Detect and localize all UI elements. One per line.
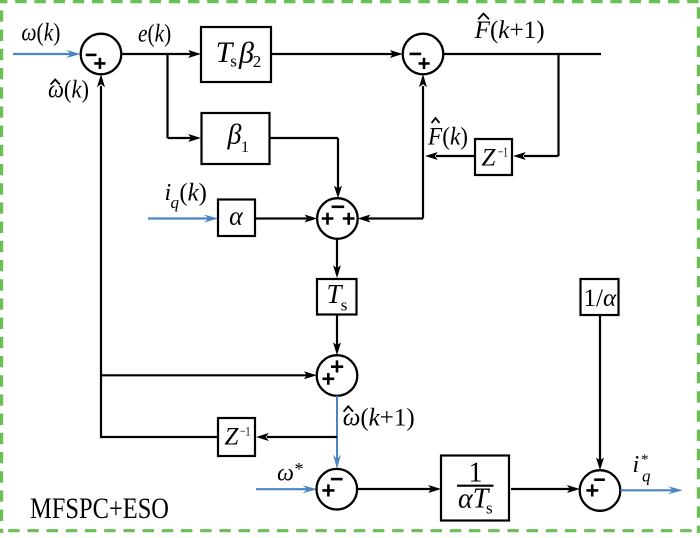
label omega-hat(k) [48,76,89,103]
svg-text:1: 1 [241,139,249,156]
svg-text:Z: Z [482,145,497,172]
wire: J1 to Ts*b2 block [121,50,201,58]
wire: branch left into Z2 [256,433,337,441]
summing junction J3 [317,198,358,239]
block Z1 (z^-1 top) [475,139,512,175]
wire: Ts down into J4 [333,315,341,356]
wire: J5 to 1/aTs block [357,485,441,493]
block alpha [218,200,255,237]
block Ts [317,279,357,315]
summing junction J2 [403,34,444,75]
svg-text:MFSPC+ESO: MFSPC+ESO [30,492,169,525]
caption MFSPC+ESO [30,492,169,525]
summing junction J4 [317,355,358,396]
svg-text:(k): (k) [179,180,207,207]
wire: J3 down to Ts [333,239,341,279]
svg-text:q: q [642,467,651,486]
wire: 1/aTs to J6 [511,485,580,493]
label iq(k) [165,180,207,213]
block Z2 (z^-1 bottom) [218,418,255,456]
label omega-star [277,459,304,487]
svg-text:s: s [486,499,493,518]
wire: blue from J4 down into J5 [333,396,341,469]
svg-text:ω: ω [277,461,294,487]
svg-text:ω(k): ω(k) [21,20,60,47]
block beta1 [202,113,270,164]
label F-hat(k+1) [474,14,545,44]
wire: vertical up into J2 [419,74,427,156]
summing junction J5 [317,469,358,510]
svg-text:α: α [229,202,244,231]
svg-text:2: 2 [253,52,262,71]
svg-text:e(k): e(k) [138,20,171,47]
wire: Z1 output to vertical feedback line [425,152,475,160]
wire: branch down from e(k) to beta1 [168,54,202,142]
block Ts*beta2 [201,27,271,82]
wire: alpha to J3 [254,215,317,223]
wire: long feedback from Z2 up into J1, with branch right to J4 [97,74,218,438]
wire: blue input iq(k) [148,215,218,223]
summing junction J6 [580,470,621,511]
label omega(k) [21,20,60,47]
wire: blue input w(k) [13,50,81,58]
svg-text:1/α: 1/α [584,285,617,312]
wire: 1/alpha down into J6 [596,316,604,470]
block 1/alpha [581,279,619,315]
block 1/(alpha Ts) [441,456,509,521]
label omega-hat(k+1) [343,405,415,432]
svg-text:−1: −1 [498,146,508,161]
svg-text:i: i [633,452,640,478]
svg-text:Z: Z [225,424,240,451]
wire: beta1 output down into J3 [270,138,342,198]
svg-text:*: * [295,459,304,479]
label e(k) [138,20,171,47]
summing junction J1 [81,34,122,75]
wire: blue input omega-star into J5 [256,485,317,493]
svg-text:β: β [227,120,242,151]
wire: branch to J4 left [101,371,317,379]
label F-hat(k) [427,118,468,150]
svg-text:s: s [230,52,237,71]
svg-text:F(k+1): F(k+1) [474,17,545,44]
label iq-star [633,452,652,486]
wire: J2 output to right [443,53,601,55]
svg-text:F(k): F(k) [427,124,468,151]
svg-text:s: s [341,296,348,315]
wire: branch down to Z1 [513,54,559,160]
wire: vertical down from F-hat(k) node then left into J3 [358,156,423,223]
svg-text:β: β [238,37,254,70]
svg-text:ω(k+1): ω(k+1) [343,405,415,432]
wire: Ts*b2 to J2 [271,50,403,58]
svg-text:q: q [171,193,180,212]
wire: blue output iq-star [620,486,682,494]
svg-text:−1: −1 [240,424,251,439]
